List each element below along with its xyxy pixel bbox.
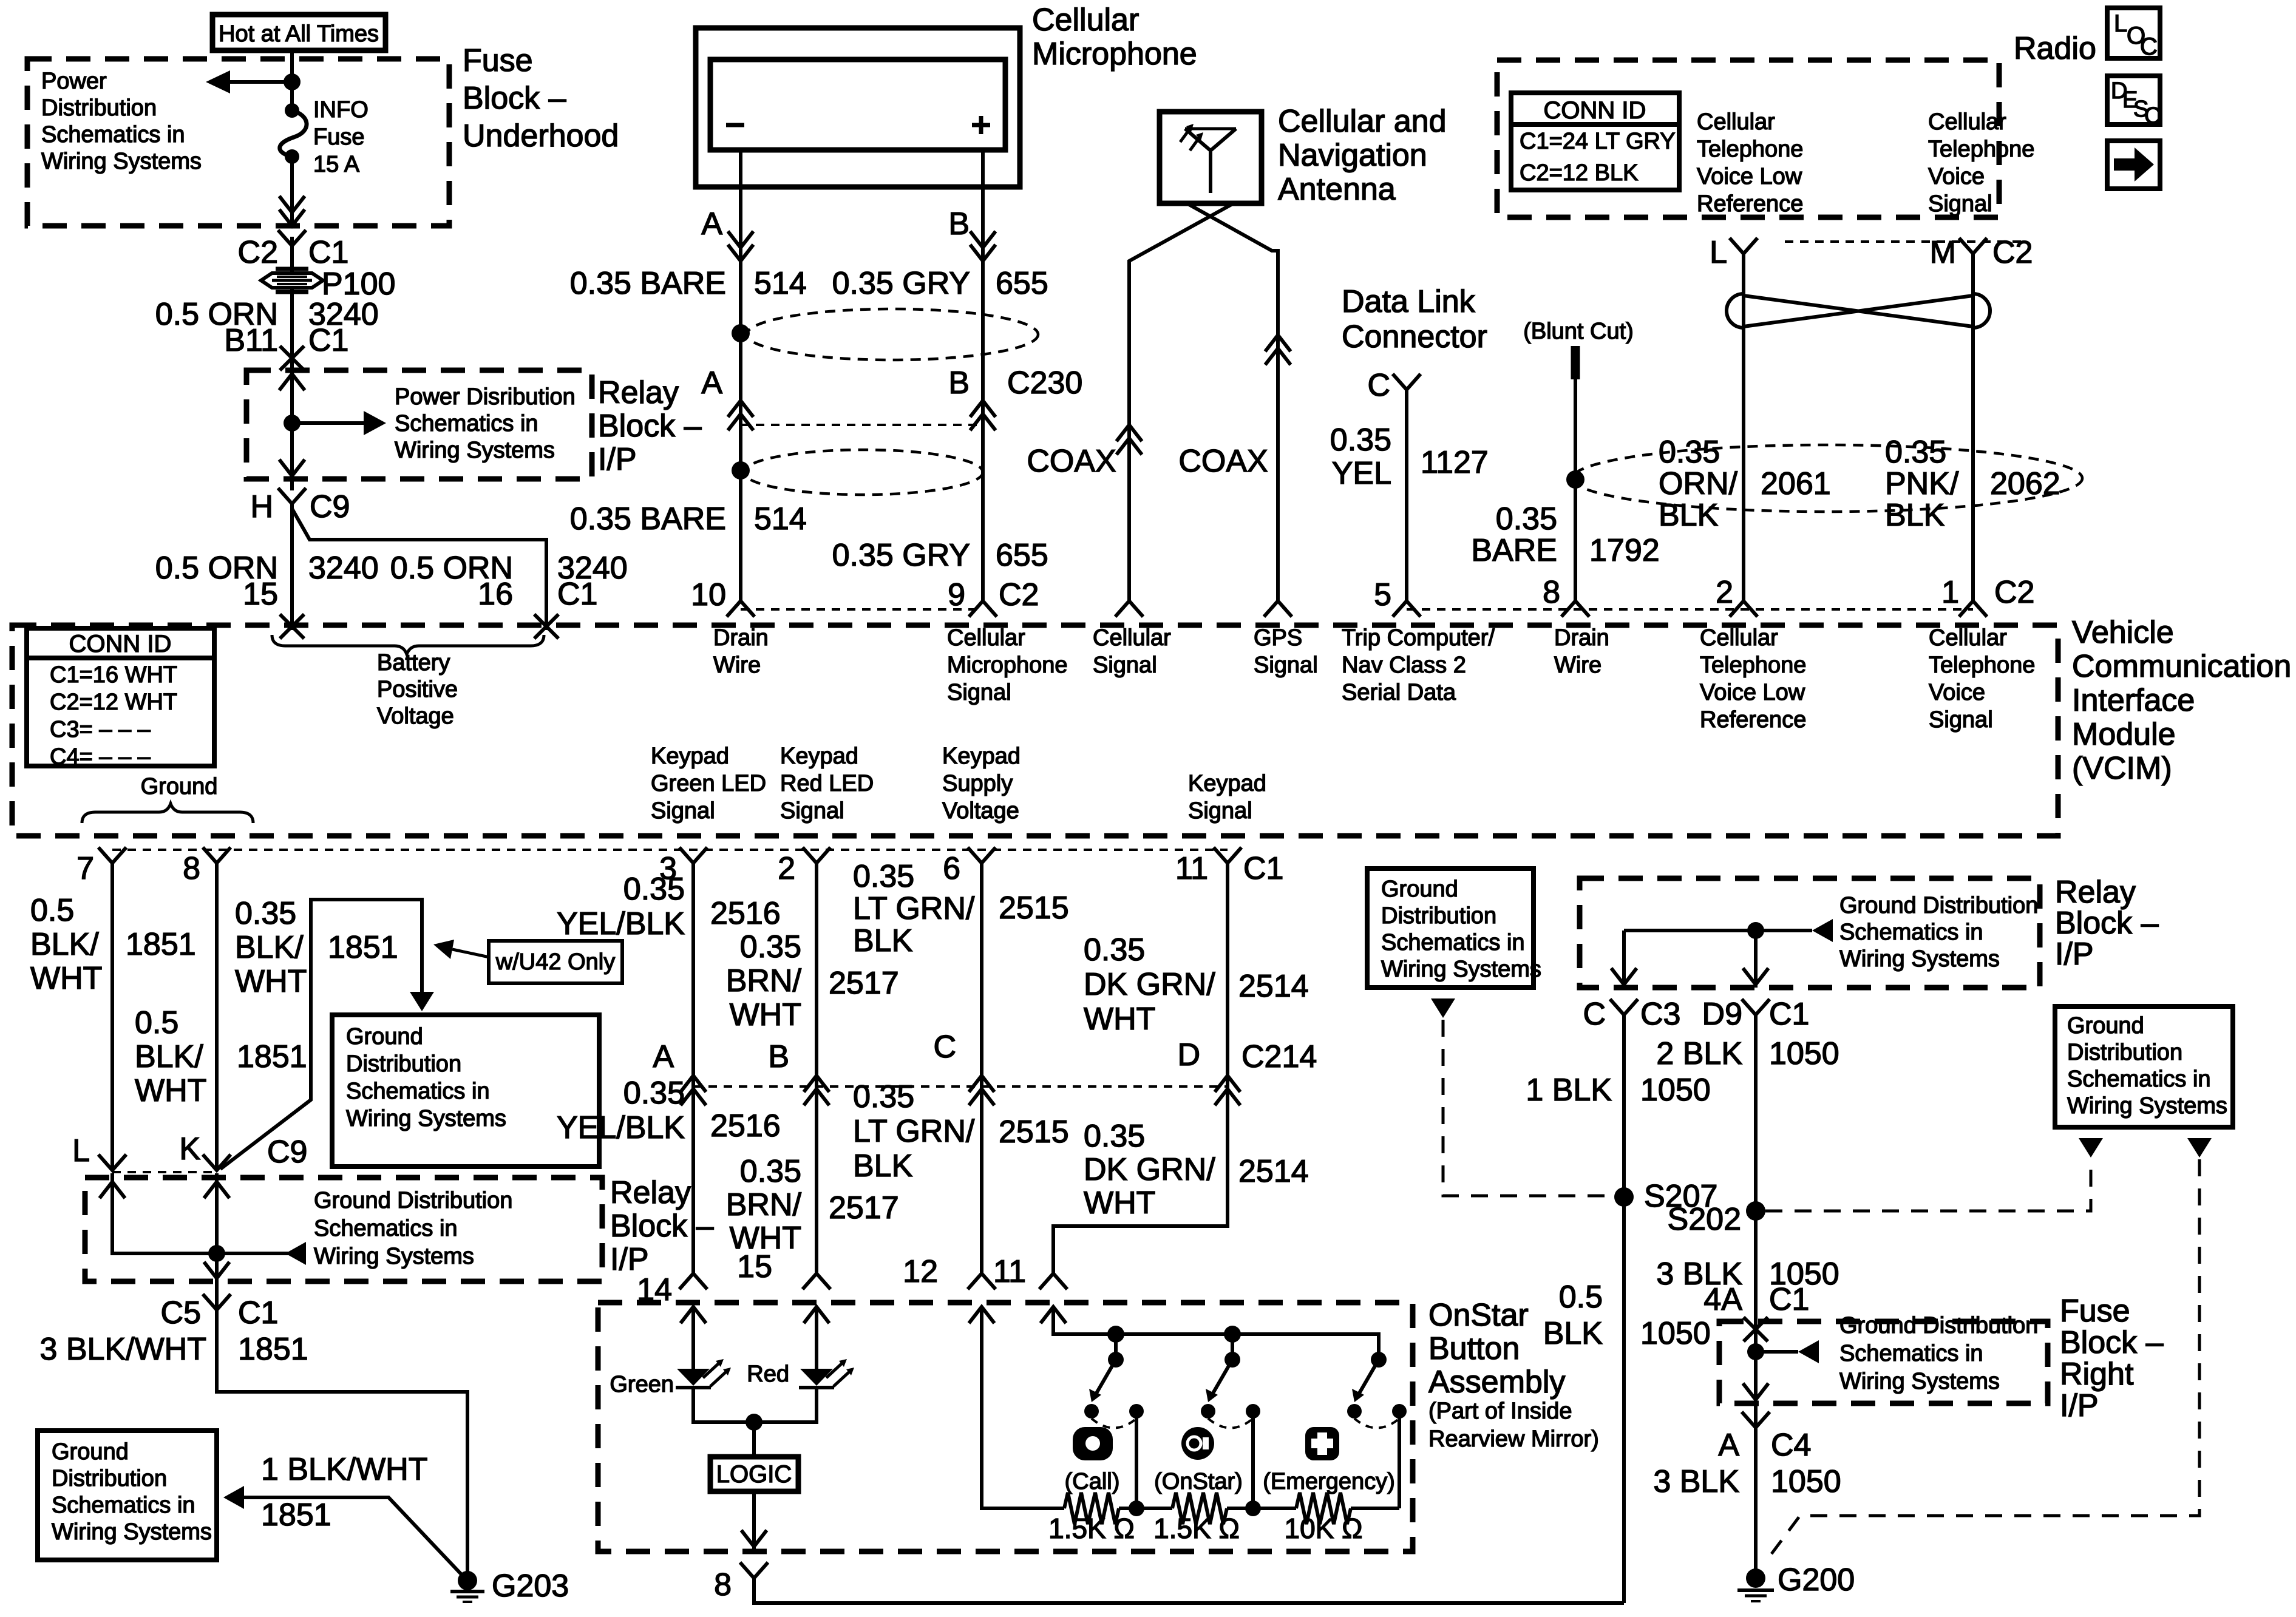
svg-text:Hot at All Times: Hot at All Times [219,21,379,47]
svg-text:Schematics in: Schematics in [2067,1066,2211,1092]
LED red [800,1369,833,1386]
node junction at fuse feed [284,73,301,90]
wire P100 to B11 [290,286,294,359]
svg-text:2061: 2061 [1761,466,1831,501]
svg-text:C3: C3 [1640,997,1680,1032]
svg-text:Schematics in: Schematics in [346,1079,490,1104]
svg-text:BLK: BLK [1885,498,1945,533]
blunt cut bar [1571,346,1580,379]
svg-text:I/P: I/P [2060,1388,2099,1423]
svg-text:655: 655 [996,538,1048,573]
arrow down wire A [728,245,753,261]
svg-text:Schematics in: Schematics in [1839,1341,1983,1366]
svg-text:Power: Power [41,69,107,94]
resistor R3 10K [1296,1493,1351,1524]
arrow down out of relay block [279,459,305,476]
svg-text:Interface: Interface [2072,683,2195,718]
svg-text:10K Ω: 10K Ω [1284,1513,1362,1544]
svg-text:1127: 1127 [1421,445,1489,480]
svg-text:2: 2 [778,851,795,886]
svg-text:Keypad: Keypad [942,744,1021,769]
svg-text:Ground: Ground [52,1439,129,1465]
shield ellipse 1 [747,309,1038,360]
connector radio M Y symbol [1959,238,1987,254]
connector B11/C1 X symbol [280,346,304,370]
svg-text:Block –: Block – [610,1209,714,1244]
svg-text:2517: 2517 [829,1190,899,1225]
svg-text:2515: 2515 [999,890,1069,926]
grommet P100 [261,273,323,288]
wire C9 to VCIM pin 15 [290,504,294,630]
svg-text:Communication: Communication [2072,649,2291,684]
svg-text:1.5K Ω: 1.5K Ω [1153,1513,1240,1544]
node drain shield junction [1566,470,1584,489]
svg-text:C1: C1 [1769,1282,1809,1317]
svg-text:655: 655 [996,266,1048,301]
svg-text:ORN/: ORN/ [1659,466,1738,501]
arrow down fuse right exit [1743,1383,1768,1400]
svg-text:C: C [933,1029,956,1065]
svg-text:Ground Distribution: Ground Distribution [1839,893,2038,918]
twisted pair symbol [1744,296,1973,327]
svg-text:3 BLK/WHT: 3 BLK/WHT [40,1332,207,1367]
svg-text:Module: Module [2072,717,2176,752]
connector C1 pin Y symbol x=1345 [803,847,830,863]
svg-text:Serial Data: Serial Data [1342,680,1456,705]
connector C9 dashed line [112,1171,217,1173]
svg-text:Wiring Systems: Wiring Systems [1839,1369,2000,1394]
svg-text:Rearview Mirror): Rearview Mirror) [1428,1426,1599,1452]
svg-text:C1=16 WHT: C1=16 WHT [50,662,177,688]
svg-text:C214: C214 [1241,1039,1317,1074]
svg-text:BARE: BARE [1471,533,1557,568]
svg-text:Underhood: Underhood [463,118,619,154]
svg-text:DK GRN/: DK GRN/ [1084,967,1215,1002]
node relay right junction [1747,922,1764,939]
svg-text:Block –: Block – [2055,906,2159,941]
svg-text:514: 514 [754,501,807,537]
svg-text:1.5K Ω: 1.5K Ω [1048,1513,1135,1544]
dashed link ground box to G200 [1771,1159,2199,1554]
svg-text:WHT: WHT [30,961,102,996]
svg-text:0.35: 0.35 [1084,1119,1145,1154]
svg-text:Cellular: Cellular [1700,625,1778,651]
svg-text:0.35: 0.35 [623,872,685,907]
resistor R2 1.5K [1172,1493,1227,1524]
dashed link to S207 [1443,1020,1608,1196]
svg-text:1050: 1050 [1640,1316,1711,1351]
connector pin 2 Y symbol [1730,601,1758,617]
callout arrow w/U42 [452,949,489,957]
connector pin 10 Y symbol [727,601,755,617]
connector C/C3 Y symbol [1610,999,1638,1015]
arrow up relay pin8 [204,1182,229,1198]
svg-text:Voice Low: Voice Low [1697,164,1802,189]
wire C1 in relay [1754,931,1758,988]
svg-text:C2: C2 [1992,235,2033,270]
antenna lightning arrows [1180,129,1190,142]
svg-text:Signal: Signal [1929,707,1993,733]
svg-text:514: 514 [754,266,807,301]
wire C5 to G203 [217,1310,467,1581]
svg-text:BLK: BLK [1659,498,1719,533]
svg-text:H: H [250,489,273,524]
svg-text:11: 11 [993,1254,1026,1289]
button icon OnStar [1181,1427,1214,1460]
box Cellular and Navigation Antenna [1160,112,1262,203]
svg-text:Distribution: Distribution [52,1466,167,1491]
ground G200 symbol [1746,1568,1765,1588]
svg-text:0.35 GRY: 0.35 GRY [832,266,970,301]
annotation arrow fuse block right [1756,1350,1798,1354]
svg-text:Drain: Drain [1554,625,1609,651]
svg-text:BLK: BLK [853,923,913,958]
connector C214 arrows x=1345 [804,1076,829,1092]
svg-text:BLK/: BLK/ [135,1039,203,1074]
svg-text:PNK/: PNK/ [1885,466,1959,501]
svg-text:S202: S202 [1668,1202,1741,1237]
svg-text:C2: C2 [1994,575,2034,610]
wire pin7 into relay block [112,1173,217,1253]
connector H/C9 Y symbol [278,488,306,504]
svg-text:(Blunt Cut): (Blunt Cut) [1523,319,1634,344]
svg-text:G203: G203 [492,1568,569,1604]
svg-text:10: 10 [691,577,726,612]
wire antenna to cellular coax crossover [1129,203,1234,601]
svg-text:DK GRN/: DK GRN/ [1084,1152,1215,1187]
connector C1 pin Y symbol x=357 [203,847,231,863]
svg-text:Drain: Drain [713,625,769,651]
connector C230 arrows wire B [970,401,996,417]
svg-text:Voice: Voice [1929,680,1985,705]
switch Emergency [1371,1352,1387,1368]
svg-text:C4= – – –: C4= – – – [50,744,151,770]
wire branch to pin 16 [292,509,546,630]
arrow up GPS coax [1265,335,1291,351]
svg-text:Vehicle: Vehicle [2072,615,2174,650]
svg-text:A: A [1718,1428,1739,1463]
brace Battery Positive Voltage [272,635,544,654]
svg-text:Signal: Signal [780,798,844,824]
svg-text:C5: C5 [161,1295,201,1331]
svg-text:C1: C1 [308,323,348,358]
svg-text:(Call): (Call) [1065,1469,1120,1494]
svg-text:15: 15 [243,577,278,612]
svg-text:8: 8 [714,1567,732,1602]
svg-text:WHT: WHT [235,964,307,999]
svg-text:C2=12 WHT: C2=12 WHT [50,690,177,715]
wire pin 2 brn/wht [815,863,818,1273]
svg-text:Connector: Connector [1342,319,1487,354]
svg-text:WHT: WHT [135,1073,206,1108]
label box Hot at All Times [212,15,385,50]
svg-text:Block –: Block – [463,81,566,116]
dashed box Relay Block - I/P (power) [246,370,592,479]
button icon Call [1073,1427,1113,1460]
svg-text:Ground Distribution: Ground Distribution [1839,1313,2038,1338]
svg-text:Distribution: Distribution [1381,903,1496,929]
svg-text:2517: 2517 [829,966,899,1001]
wire drain blunt cut to VCIM pin 8 [1574,379,1577,601]
svg-text:C1: C1 [1769,997,1809,1032]
wire arrow to power distribution [228,80,292,84]
wire through relay block [290,359,294,490]
box arrow [2107,141,2160,189]
svg-text:1851: 1851 [328,930,398,965]
arrow down ground box right 1 [2079,1138,2103,1158]
svg-text:0.35: 0.35 [235,896,296,931]
svg-text:Cellular and: Cellular and [1278,104,1447,139]
svg-text:Ground: Ground [2067,1013,2144,1039]
svg-text:2062: 2062 [1990,466,2060,501]
connector C1 pin Y symbol x=1142 [679,847,707,863]
arrow into ground distribution box [410,992,434,1011]
dashed link S202 to ground box [1765,1159,2091,1211]
svg-text:Right: Right [2060,1357,2134,1392]
node fuse block junction [1747,1343,1764,1360]
node R1 R2 [1129,1500,1144,1516]
svg-text:1050: 1050 [1640,1073,1711,1108]
svg-text:1 BLK/WHT: 1 BLK/WHT [261,1452,428,1487]
ground G203 symbol [458,1571,477,1590]
arrow up cellular coax [1116,425,1142,441]
svg-text:1 BLK: 1 BLK [1526,1073,1612,1108]
svg-text:Distribution: Distribution [346,1051,461,1077]
svg-text:Signal: Signal [1928,191,1992,217]
svg-text:w/U42 Only: w/U42 Only [495,949,615,975]
svg-text:CONN ID: CONN ID [1544,97,1646,124]
wire onstar contact to resistor node [1251,1411,1255,1508]
annotation arrow ground distribution relay2 [217,1252,304,1255]
connector onstar pin Y symbol x=1345 [803,1273,830,1289]
svg-text:Signal: Signal [1188,798,1252,824]
svg-text:Block –: Block – [2060,1325,2164,1360]
svg-text:0.35 BARE: 0.35 BARE [570,266,726,301]
svg-text:C2=12 BLK: C2=12 BLK [1520,160,1638,186]
svg-text:0.35: 0.35 [853,1079,914,1114]
connector GPS signal Y symbol [1264,601,1292,617]
wire pin8 through relay block [215,1173,219,1310]
svg-text:0.35: 0.35 [1330,422,1391,458]
svg-text:(OnStar): (OnStar) [1154,1469,1243,1494]
wire radio M voice signal [1971,254,1975,601]
wire pin 7 BLK/WHT [110,863,114,1170]
shield ellipse radio drain [1572,445,2082,512]
arrow up onstar entry x=1345 [804,1307,829,1323]
svg-text:G200: G200 [1778,1562,1855,1598]
svg-text:Signal: Signal [947,680,1011,705]
connector C2 dashed line right [1407,608,1973,611]
svg-text:Positive: Positive [377,677,458,702]
svg-text:Microphone: Microphone [1032,36,1197,72]
svg-text:D9: D9 [1702,997,1742,1032]
svg-text:WHT: WHT [1084,1185,1155,1221]
svg-text:8: 8 [1543,575,1560,610]
svg-text:Wiring Systems: Wiring Systems [1839,946,2000,972]
wire from Hot at All Times to fuse [290,50,294,109]
connector D9/C1 Y symbol [1742,999,1770,1015]
connector pin 9 Y symbol [969,601,997,617]
connector C230 dashed line [741,424,983,426]
callout box w/U42 Only [489,941,622,983]
svg-text:2514: 2514 [1238,969,1309,1004]
svg-text:Telephone: Telephone [1928,137,2034,162]
svg-text:C: C [1367,368,1390,403]
svg-text:Schematics in: Schematics in [1381,930,1525,955]
box Ground Distribution Schematics (U42) [332,1015,599,1167]
svg-text:BLK/: BLK/ [30,927,99,962]
svg-text:Assembly: Assembly [1428,1364,1565,1400]
arrow down from ground box S207 [1431,998,1455,1018]
svg-text:Reference: Reference [1697,191,1803,217]
wire relay right interior [1624,929,1812,932]
svg-text:Schematics in: Schematics in [395,411,538,436]
table CONN ID VCIM [27,628,214,766]
wire C3 in relay [1622,931,1626,988]
svg-text:Wiring Systems: Wiring Systems [2067,1093,2227,1119]
svg-text:0.35: 0.35 [1496,501,1557,537]
microphone minus terminal [726,123,744,127]
svg-text:0.35: 0.35 [740,1154,801,1189]
svg-text:C: C [1583,997,1606,1032]
svg-text:2516: 2516 [710,1108,781,1144]
connector C214 arrows x=1617 [969,1076,994,1092]
svg-text:Voice: Voice [1928,164,1985,189]
svg-text:Keypad: Keypad [1188,771,1266,796]
wire fuse to C1 connector [290,157,294,226]
svg-text:BRN/: BRN/ [726,963,802,998]
svg-text:BLK: BLK [1543,1316,1603,1351]
connector C2/C1 Y symbol [278,230,306,246]
svg-text:Red LED: Red LED [780,771,874,796]
svg-text:K: K [179,1131,200,1167]
connector C214 arrows x=1142 [681,1076,706,1092]
connector C1 pin Y symbol x=185 [98,847,126,863]
svg-text:Wiring Systems: Wiring Systems [314,1244,474,1269]
box DESC [2107,76,2160,124]
svg-text:Telephone: Telephone [1929,653,2035,678]
svg-text:1851: 1851 [261,1497,331,1533]
wire antenna to GPS coax crossover [1187,203,1278,601]
svg-text:Power Disribution: Power Disribution [395,384,576,410]
dashed box Relay Block - I/P (right) [1580,878,2040,988]
splice S202 [1746,1201,1765,1221]
svg-text:Block –: Block – [598,408,702,444]
svg-text:YEL/BLK: YEL/BLK [557,906,685,941]
svg-text:Fuse: Fuse [313,124,364,150]
node bus call [1107,1326,1124,1343]
connector C230 arrows wire A [728,401,753,417]
svg-text:Schematics in: Schematics in [314,1216,458,1241]
svg-text:Wiring Systems: Wiring Systems [41,149,202,174]
node junction in relay block [284,415,301,432]
svg-text:Wiring Systems: Wiring Systems [346,1106,506,1131]
wire keypad signal bus [1053,1307,1379,1360]
svg-text:BLK: BLK [853,1148,913,1184]
switch OnStar [1231,1334,1234,1360]
wire pin 3 yel/blk [691,863,695,1273]
svg-text:INFO: INFO [313,97,369,123]
svg-text:Cellular: Cellular [1032,2,1139,38]
resistor R1 1.5K [1064,1493,1119,1524]
svg-text:3240: 3240 [308,551,379,586]
connector onstar pin Y symbol x=1735 [1039,1273,1067,1289]
svg-text:Telephone: Telephone [1700,653,1806,678]
svg-text:Schematics in: Schematics in [41,122,185,147]
node led junction [746,1414,763,1431]
svg-text:Relay: Relay [610,1175,691,1210]
svg-text:C4: C4 [1771,1428,1811,1463]
svg-text:2515: 2515 [999,1114,1069,1150]
connector C1 dashed line bottom [112,849,1228,851]
svg-text:Ground: Ground [1381,876,1458,902]
svg-text:A: A [653,1039,674,1074]
svg-text:1792: 1792 [1589,533,1660,568]
svg-text:Microphone: Microphone [947,653,1068,678]
svg-text:9: 9 [948,577,965,612]
svg-text:C9: C9 [310,489,350,524]
wire call contact to resistor node [1135,1411,1138,1508]
svg-text:C1: C1 [308,235,348,270]
svg-text:16: 16 [478,577,513,612]
svg-text:C230: C230 [1007,365,1082,401]
node bus onstar [1224,1326,1241,1343]
arrow down logic exit [741,1530,767,1547]
box Ground Distribution Schematics (G203) [38,1431,217,1560]
connector radio L Y symbol [1730,238,1758,254]
svg-text:8: 8 [183,851,200,886]
svg-text:Wire: Wire [713,653,761,678]
svg-text:WHT: WHT [730,997,801,1032]
arrow out of fuse block [279,209,305,226]
dashed box Fuse Block - Right I/P [1719,1321,2048,1403]
node shield junction 1 [732,324,750,342]
svg-text:2514: 2514 [1238,1154,1309,1189]
svg-text:Fuse: Fuse [463,43,533,78]
svg-text:Signal: Signal [1254,653,1318,678]
connector radio C2 dashed line [1785,240,2028,243]
svg-text:C2: C2 [999,577,1039,612]
svg-text:YEL: YEL [1332,456,1391,491]
box Ground Distribution Schematics (right) [2055,1006,2233,1127]
fuse INFO Fuse 15 A [285,103,299,118]
wire pin 8 BLK/WHT [215,863,219,1170]
svg-text:Radio: Radio [2014,31,2096,66]
svg-text:WHT: WHT [1084,1002,1155,1037]
wire emergency contact to resistor end [1398,1411,1401,1508]
dashed box Relay Block - I/P (ground) [85,1178,602,1281]
svg-text:0.5: 0.5 [135,1005,178,1040]
svg-text:C9: C9 [267,1134,307,1170]
connector pin 1 Y symbol [1959,601,1987,617]
connector C5/C1 Y symbol [203,1294,231,1310]
svg-text:Red: Red [747,1361,789,1387]
svg-text:Button: Button [1428,1331,1520,1366]
svg-text:Cellular: Cellular [1093,625,1171,651]
dashed box Fuse Block - Underhood [27,59,449,226]
svg-text:0.35 BARE: 0.35 BARE [570,501,726,537]
svg-text:1050: 1050 [1769,1036,1839,1071]
svg-text:A: A [701,365,722,401]
svg-text:L: L [2114,10,2127,37]
svg-text:B: B [768,1039,789,1074]
svg-text:Green: Green [610,1372,674,1397]
wire D9 to G200 [1754,1015,1758,1578]
connector C9 Y symbols [98,1154,126,1170]
connector onstar pin 8 Y symbol [740,1562,768,1578]
svg-text:Telephone: Telephone [1697,137,1803,162]
wire w/U42 only ground [220,900,422,1169]
